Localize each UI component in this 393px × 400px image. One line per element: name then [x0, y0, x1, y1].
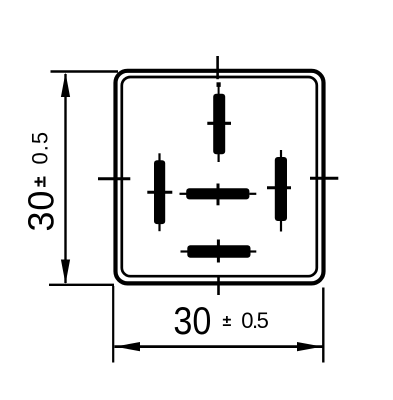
inner housing outline: [122, 77, 317, 276]
svg-text:30: 30: [20, 190, 61, 232]
top extension line: [51, 70, 119, 72]
terminal 2 centerline upper: [158, 153, 160, 161]
svg-text:30: 30: [173, 300, 211, 343]
terminal 4 cross tick: [217, 184, 220, 206]
terminal 5 centerline left: [181, 250, 189, 252]
terminal 2 blade (left): [154, 160, 165, 224]
terminal 4 blade (center): [186, 188, 249, 199]
terminal 1 centerline dot: [217, 82, 221, 87]
bottom dimension left extension line: [112, 286, 114, 363]
terminal 2 cross tick: [147, 191, 172, 194]
bottom dimension line: [115, 345, 323, 348]
centerline tick bottom border: [217, 277, 220, 295]
terminal 1 cross tick: [207, 122, 231, 125]
bottom dimension right extension line: [322, 288, 324, 363]
terminal 5 centerline right: [251, 250, 257, 252]
vertical dimension top arrowhead: [61, 73, 70, 98]
centerline tick left border: [98, 177, 130, 180]
terminal 1 centerline upper: [218, 87, 220, 96]
terminal 2 centerline lower: [158, 224, 160, 232]
terminal 1 blade (top): [213, 94, 225, 155]
bottom dimension left arrowhead: [115, 342, 140, 351]
terminal 3 blade (right): [275, 157, 287, 221]
vertical dimension line: [64, 74, 66, 283]
terminal 1 centerline lower: [218, 154, 220, 162]
terminal 3 cross tick: [267, 186, 291, 189]
vertical dimension label 30 ± 0.5 (rotated): [20, 131, 61, 232]
terminal 3 centerline upper: [280, 150, 282, 158]
bottom dimension right arrowhead: [297, 342, 322, 351]
svg-text:0.5: 0.5: [241, 308, 268, 333]
vertical dimension bottom arrowhead: [61, 260, 70, 285]
terminal 4 centerline right: [250, 193, 257, 195]
centerline tick right border: [310, 177, 338, 180]
terminal 3 centerline lower: [280, 221, 282, 232]
terminal 5 cross tick: [217, 240, 220, 263]
outer housing outline: [116, 71, 324, 284]
terminal 4 centerline left: [180, 193, 188, 195]
bottom-left extension line: [49, 284, 114, 286]
svg-text:0.5: 0.5: [27, 131, 52, 165]
centerline tick top border: [216, 56, 219, 79]
svg-text:±: ±: [223, 313, 232, 330]
vertical dimension label ± (rotated, drawn as bars): [43, 177, 45, 188]
terminal 5 blade (bottom): [187, 245, 250, 258]
